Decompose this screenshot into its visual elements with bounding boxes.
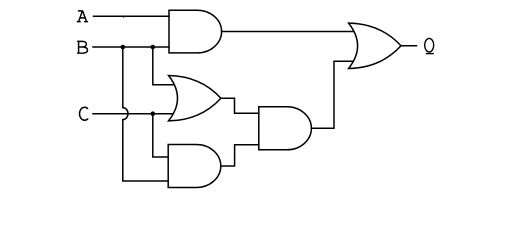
node B1 junction	[121, 45, 126, 50]
wire B1 vertical upper segment	[122, 47, 124, 108]
or-gate U5	[349, 23, 401, 68]
wire hop over C wire	[123, 108, 128, 120]
node stub on wire A	[123, 16, 125, 18]
input label C	[80, 107, 89, 120]
wire A to U1	[94, 15, 170, 17]
wire C1 to U3 upper input	[153, 114, 168, 157]
input label B	[77, 41, 87, 53]
wire U3 output to U4 lower input	[221, 145, 259, 166]
node B2 junction	[151, 45, 156, 50]
output label Q	[425, 38, 434, 53]
wire U5 output to Q	[401, 45, 417, 47]
wire C to U2 lower input	[93, 113, 173, 115]
and-gate U3	[168, 145, 221, 188]
wire U4 output to U5 lower input	[311, 61, 353, 128]
wire U2 output to U4 upper input	[221, 98, 259, 113]
and-gate U4	[259, 107, 312, 150]
wire U1 output to U5 upper input	[222, 31, 353, 33]
and-gate U1	[169, 10, 222, 53]
wire B1 vertical lower segment to U3 lower input	[123, 120, 168, 181]
wire B2 to U2 upper input	[153, 47, 173, 85]
or-gate U2	[169, 76, 221, 121]
wire B to U1	[93, 46, 169, 48]
node C1 junction	[151, 111, 156, 116]
input label A	[77, 11, 88, 22]
